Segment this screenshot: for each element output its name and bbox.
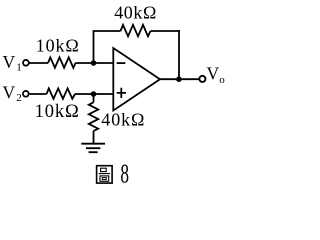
op-amp U1 — [113, 48, 160, 111]
label Vo — [207, 64, 226, 87]
resistor R3 40kΩ feedback — [121, 25, 151, 36]
wire V2 terminal to R2 — [29, 93, 46, 95]
op-amp U1 inverting input minus sign — [117, 62, 126, 64]
wire feedback top left segment — [93, 30, 121, 32]
svg-text:10kΩ: 10kΩ — [35, 102, 80, 122]
node V2 input terminal — [23, 91, 29, 97]
resistor R2 10kΩ — [47, 88, 76, 98]
svg-text:40kΩ: 40kΩ — [114, 3, 157, 23]
svg-text:40kΩ: 40kΩ — [101, 110, 145, 130]
svg-text:8: 8 — [120, 159, 129, 189]
svg-text:o: o — [219, 74, 225, 86]
caption figure character 圖 — [97, 166, 113, 183]
node V1 input terminal — [23, 60, 29, 66]
wire feedback top right segment — [151, 30, 180, 32]
wire R4 top lead — [93, 94, 95, 102]
wire R2 to op-amp non-inverting input — [75, 93, 113, 95]
wire feedback right vertical — [178, 30, 180, 79]
wire R1 to op-amp inverting input — [76, 62, 114, 64]
wire op-amp output to Vo terminal — [160, 78, 199, 80]
resistor R4 40kΩ to ground — [89, 102, 98, 131]
svg-text:V: V — [207, 64, 220, 84]
svg-text:V: V — [3, 52, 16, 72]
wire R4 bottom lead — [93, 131, 95, 144]
op-amp U1 non-inverting input plus sign — [117, 88, 126, 98]
node junction R1 / feedback — [91, 60, 97, 66]
node junction output / feedback — [176, 76, 182, 82]
node junction R2 / R4 — [91, 91, 97, 97]
svg-text:V: V — [3, 83, 16, 103]
wire V1 terminal to R1 — [29, 62, 48, 64]
label V2 — [3, 83, 22, 105]
resistor R1 10kΩ — [48, 57, 76, 67]
label V1 — [3, 52, 22, 74]
ground — [81, 144, 105, 153]
svg-text:10kΩ: 10kΩ — [36, 36, 80, 56]
svg-text:1: 1 — [16, 62, 22, 74]
node Vo output terminal — [199, 76, 205, 82]
wire feedback left vertical — [93, 31, 95, 63]
svg-text:2: 2 — [16, 92, 22, 104]
